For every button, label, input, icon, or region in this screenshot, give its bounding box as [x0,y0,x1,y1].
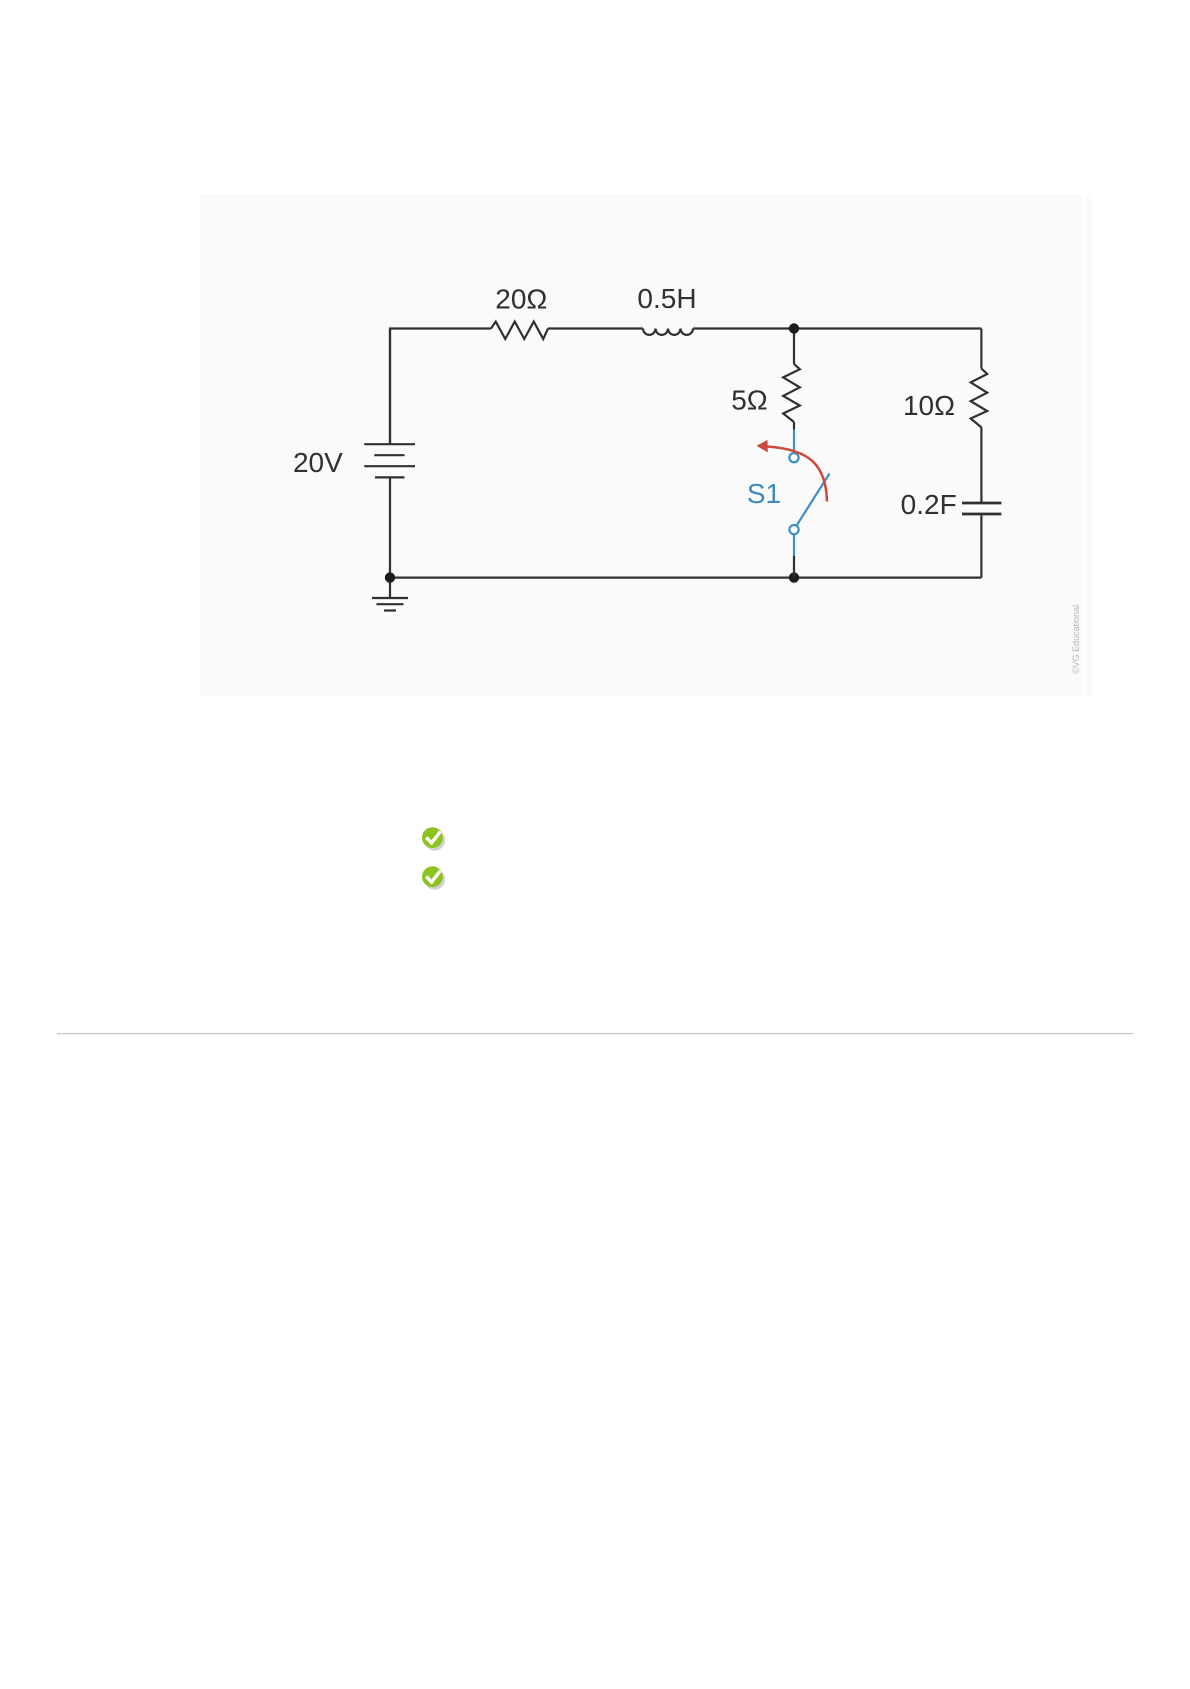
battery V1 top lead [389,329,391,444]
switch S1 lower contact circle [789,525,798,534]
svg-text:0.5H: 0.5H [637,283,696,314]
resistor R2 5ohm zigzag [783,364,800,422]
wire: bottom horizontal [390,576,981,578]
switch S1 blade [797,474,830,526]
check icon 2 [422,866,443,887]
node B: bottom middle junction dot [789,572,799,582]
check icon 2 shadow [425,869,445,889]
ground lead [389,578,391,598]
wire: 10ohm to capacitor [980,427,982,502]
wire: capacitor to bottom-right corner [980,515,982,577]
capacitor C1 plates [962,502,1001,505]
ground bars [372,597,408,599]
node C: bottom left junction dot [385,572,395,582]
svg-text:S1: S1 [747,478,781,509]
wire: right vertical down to 10ohm [980,329,982,369]
resistor R1 20ohm zigzag [491,322,548,339]
svg-text:0.2F: 0.2F [901,489,957,520]
inductor L1 0.5H [643,329,693,335]
wire: left vertical + top-left segment [390,329,491,445]
check icon 1 [422,827,443,848]
svg-text:10Ω: 10Ω [903,390,955,421]
wire: lower black stub to bottom node [793,556,795,578]
wire: inductor to top-right corner [693,327,981,329]
horizontal divider rule [57,1033,1133,1034]
battery V1 bottom lead [389,477,391,577]
battery V1 plates [364,443,415,445]
svg-text:©VG Educational: ©VG Educational [1071,605,1081,674]
check icon 1 shadow [425,830,445,850]
switch S1 upper blue lead [793,430,795,453]
red actuation arc of S1 [768,447,828,502]
svg-text:20Ω: 20Ω [495,283,547,314]
red arrowhead [757,440,768,452]
svg-text:20V: 20V [293,447,343,478]
wire: below 5ohm (black part) [793,422,795,430]
wire: middle branch stem [793,329,795,365]
resistor R3 10ohm zigzag [971,369,988,428]
schematic background panel [200,194,1082,696]
svg-text:5Ω: 5Ω [731,385,768,416]
schematic background side strip [1085,194,1092,696]
wire: between resistor and inductor [548,327,643,329]
node A: top middle junction dot [789,323,799,333]
switch S1 upper contact circle [789,453,798,462]
switch S1 lower blue lead [793,535,795,557]
